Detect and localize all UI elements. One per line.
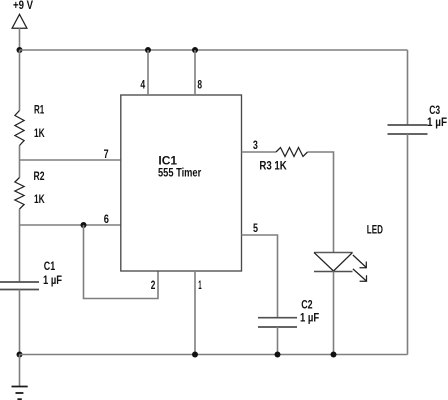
node C2 bottom junction dot [275, 352, 281, 358]
node A junction dot [17, 47, 23, 53]
svg-text:C2: C2 [301, 299, 312, 311]
svg-text:6: 6 [104, 214, 109, 226]
svg-text:1K: 1K [34, 128, 45, 140]
wire pin 3 horizontal [242, 151, 277, 153]
wire R1 to pin7 node [19, 146, 21, 178]
wire bottom rail [20, 354, 408, 356]
svg-text:1K: 1K [34, 194, 45, 206]
resistor R1 [15, 105, 45, 146]
node B junction dot on pin6 wire [81, 222, 87, 228]
svg-text:7: 7 [104, 149, 109, 161]
wire pin 7 horizontal [20, 159, 121, 161]
node pin8 junction dot [192, 47, 198, 53]
LED light arrow 1 [353, 255, 366, 268]
wire pin 6 horizontal [20, 224, 121, 226]
ground [12, 387, 28, 400]
op IC1 555 timer box [121, 95, 242, 271]
node LED bottom junction dot [331, 352, 337, 358]
svg-text:3: 3 [253, 140, 258, 152]
wire pin 8 stub [194, 50, 196, 95]
wire R2 to pin6 wire [19, 209, 21, 225]
wire LED cathode to bottom rail [333, 272, 335, 355]
wire pin 1 stub to bottom rail [194, 271, 196, 355]
wire left rail node A to R1 [19, 50, 21, 111]
wire node B down to pin 2 branch [84, 225, 159, 299]
svg-text:2: 2 [151, 280, 156, 292]
wire right rail top segment [407, 50, 409, 125]
svg-text:C3: C3 [429, 105, 440, 117]
svg-text:1 µF: 1 µF [300, 313, 319, 325]
svg-text:R3 1K: R3 1K [259, 161, 287, 173]
svg-text:+9 V: +9 V [13, 0, 33, 12]
svg-text:8: 8 [197, 80, 202, 92]
wire pin 4 stub [147, 50, 149, 95]
svg-text:IC1: IC1 [158, 156, 177, 168]
wire right rail bottom segment [407, 134, 409, 355]
capacitor C2 [258, 299, 319, 327]
capacitor C3 [388, 105, 448, 134]
wire pin 5 horizontal and down to C2 [242, 235, 278, 318]
wire top rail [20, 49, 408, 51]
svg-text:1 µF: 1 µF [43, 275, 62, 287]
wire C1 to bottom rail node C [19, 290, 21, 355]
svg-text:LED: LED [367, 224, 383, 236]
capacitor C1 [0, 261, 62, 290]
wire C2 to bottom rail [277, 327, 279, 355]
svg-text:R2: R2 [34, 171, 45, 183]
svg-text:5: 5 [253, 223, 258, 235]
resistor R3 [259, 148, 307, 173]
wire R3 to LED branch corner [308, 152, 334, 253]
svg-text:R1: R1 [34, 105, 45, 117]
wire left rail pin6 to C1 [19, 225, 21, 282]
svg-text:C1: C1 [44, 261, 56, 273]
node pin4 junction dot [145, 47, 151, 53]
wire from +9V to node A [19, 28, 21, 50]
svg-text:4: 4 [140, 79, 145, 91]
LED D1 [314, 224, 383, 271]
node pin1 bottom junction dot [192, 352, 198, 358]
node C junction dot bottom left [17, 352, 23, 358]
svg-text:1 µF: 1 µF [427, 117, 447, 129]
power +9V supply symbol [12, 0, 33, 28]
resistor R2 [15, 171, 45, 209]
LED light arrow 2 [353, 269, 367, 281]
svg-text:1: 1 [198, 280, 202, 292]
svg-text:555 Timer: 555 Timer [158, 168, 202, 180]
wire node C to ground [19, 355, 21, 387]
